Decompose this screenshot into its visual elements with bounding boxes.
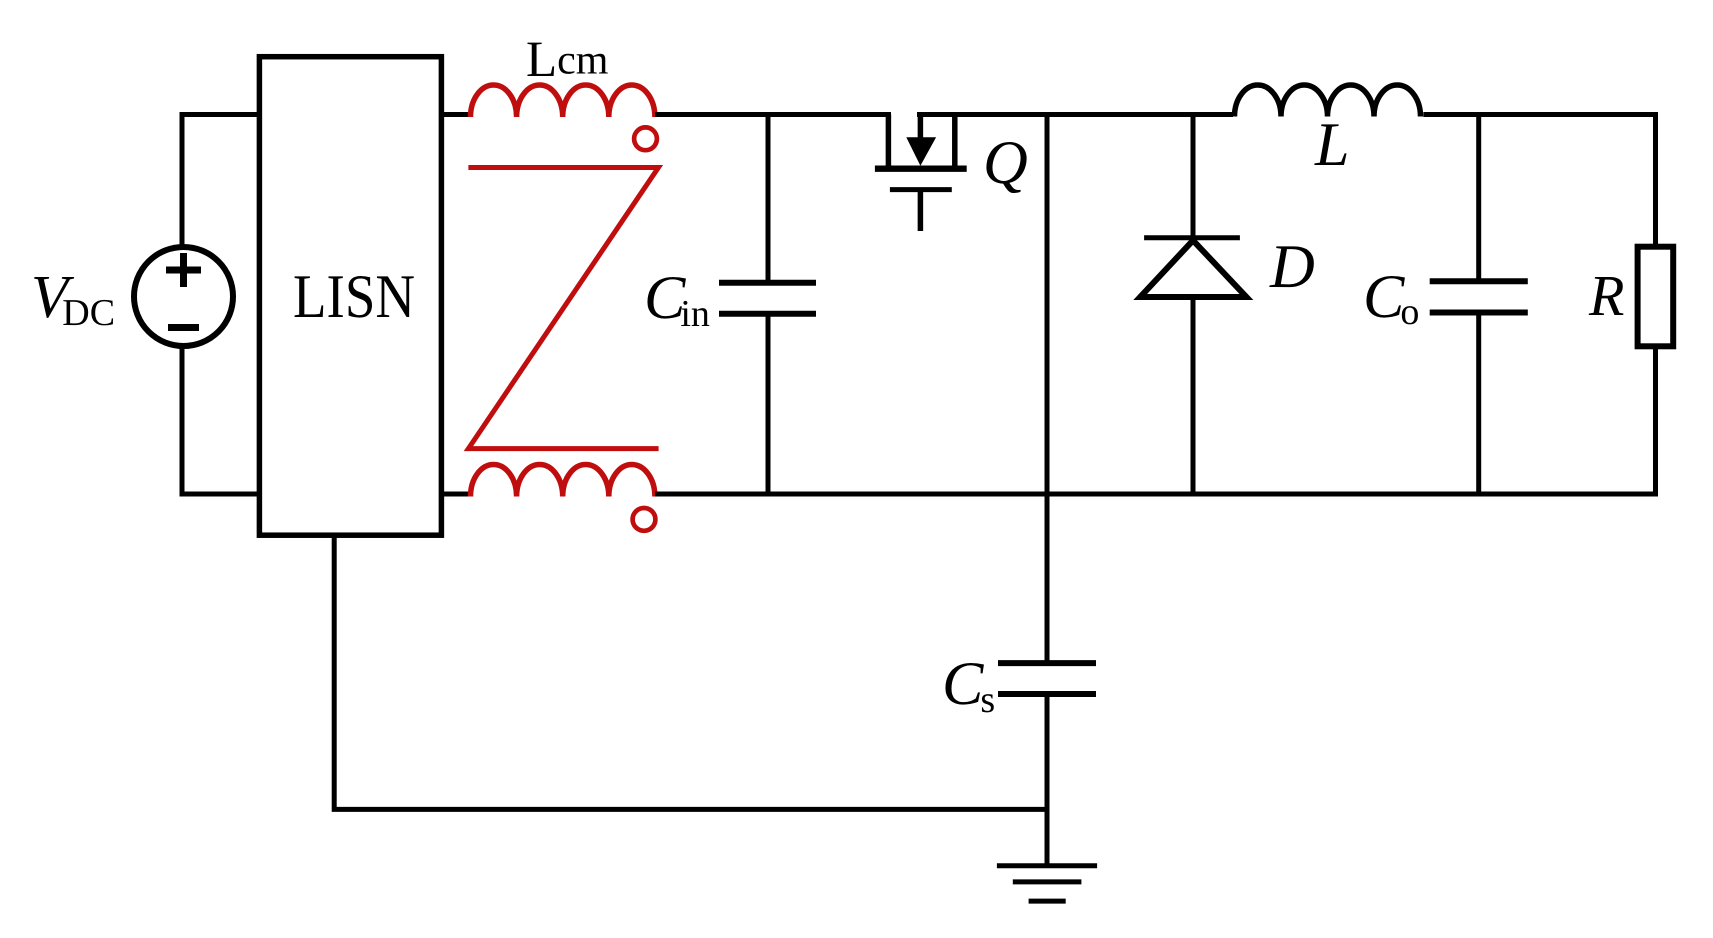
wire top bus Q to L bbox=[917, 112, 1233, 117]
wire R branch top bbox=[1653, 112, 1658, 247]
VDC minus sign bbox=[168, 324, 199, 331]
transistor Q gate bar bbox=[890, 187, 952, 192]
LISN box bbox=[259, 57, 441, 536]
Lcm bottom polarity dot bbox=[633, 508, 656, 531]
wire Cs to ground bbox=[1045, 696, 1050, 864]
wire Cin branch bottom bbox=[766, 315, 771, 494]
ground symbol bbox=[997, 866, 1097, 901]
transistor Q gate lead bbox=[918, 190, 924, 231]
inductor L winding bbox=[1235, 85, 1421, 116]
wire LISN ground stub bbox=[334, 535, 1047, 809]
source VDC circle bbox=[134, 247, 233, 346]
wire LISN to Lcm bottom bbox=[442, 492, 470, 497]
wire bottom bus bbox=[655, 492, 1658, 497]
wire VDC bottom to LISN bbox=[182, 347, 259, 494]
diode D cathode bar bbox=[1144, 235, 1240, 240]
transistor Q arrow lead bbox=[918, 115, 924, 141]
inductor Lcm bottom winding bbox=[471, 465, 655, 497]
wire diode branch bottom bbox=[1191, 297, 1196, 494]
wire Cin branch top bbox=[766, 115, 771, 282]
transistor Q arrow head bbox=[906, 137, 936, 165]
transistor Q channel bar bbox=[875, 166, 967, 172]
wire diode branch top bbox=[1191, 115, 1196, 239]
wire top bus Lcm to Q bbox=[655, 112, 891, 117]
Lcm top polarity dot bbox=[634, 127, 657, 150]
svg-text:Q: Q bbox=[983, 129, 1028, 197]
svg-text:LISN: LISN bbox=[293, 263, 415, 331]
wire top bus L to R corner bbox=[1423, 112, 1658, 117]
transistor Q source lead bbox=[952, 115, 958, 167]
wire Co branch top bbox=[1476, 115, 1481, 280]
capacitor Cs plates bbox=[998, 663, 1096, 694]
svg-text:R: R bbox=[1588, 263, 1624, 328]
wire LISN to Lcm top bbox=[442, 112, 470, 117]
capacitor Co plates bbox=[1430, 281, 1528, 312]
VDC plus sign bbox=[166, 253, 201, 287]
svg-text:Lcm: Lcm bbox=[526, 32, 609, 88]
wire VDC top to LISN bbox=[182, 115, 259, 247]
svg-text:D: D bbox=[1269, 233, 1315, 301]
diode D triangle bbox=[1140, 240, 1246, 297]
inductor Lcm top winding bbox=[471, 85, 655, 117]
capacitor Cin plates bbox=[719, 283, 816, 314]
svg-text:L: L bbox=[1314, 111, 1349, 179]
wire switch node down to Cs bbox=[1045, 115, 1050, 662]
Lcm core Z symbol bbox=[468, 168, 658, 449]
transistor Q drain lead bbox=[886, 115, 892, 167]
wire Co branch bottom bbox=[1476, 314, 1481, 494]
resistor R body bbox=[1638, 247, 1674, 347]
wire R branch bottom bbox=[1653, 346, 1658, 497]
